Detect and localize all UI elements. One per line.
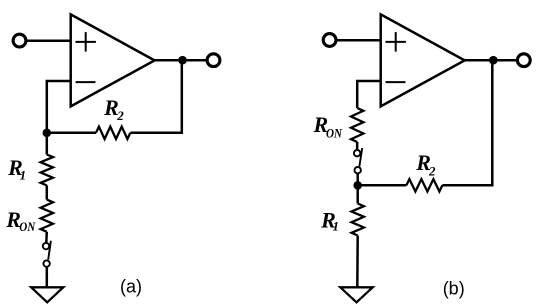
ground symbol a [31,287,63,302]
svg-text:1: 1 [333,218,340,233]
minus sign U2 [386,81,406,83]
op-amp U1 [71,14,155,106]
svg-text:(a): (a) [120,277,142,297]
svg-text:1: 1 [20,167,27,182]
svg-text:2: 2 [428,163,436,178]
switch bottom contact circle a [43,260,49,266]
plus sign U2 [386,32,406,52]
switch lever a [48,241,51,260]
op-amp U2 [381,14,465,106]
resistor R1 (a) [41,155,53,186]
output terminal circuit a [207,54,220,67]
wire switch to ground a [46,267,49,289]
wire op-amp output a [155,59,207,62]
wire RON to switch b [356,142,359,150]
wire R1 to ground b [356,236,359,289]
switch lever b [359,148,362,166]
resistor R2 (b) [406,179,442,191]
wire switch to node B [356,174,359,186]
wire op-amp output b [465,59,517,62]
resistor R1 (b) [352,204,364,236]
svg-text:2: 2 [116,108,124,123]
wire node B to R2 b [358,184,407,187]
resistor RON (b) [351,108,363,142]
wire input to op-amp noninverting b [337,39,381,42]
wire node B to R1 b [356,185,359,203]
switch bottom contact circle b [355,167,361,173]
ground symbol b [340,287,372,302]
svg-text:ON: ON [19,219,36,234]
wire inverting input to RON b [357,81,381,108]
output terminal circuit b [517,54,530,67]
output junction dot a [178,56,187,65]
plus sign U1 [76,32,96,52]
svg-text:ON: ON [326,125,343,140]
wire R2 to output b [442,60,492,185]
minus sign U1 [76,81,96,83]
wire RON to switch a [45,232,48,243]
wire R1 to RON a [46,185,49,199]
node B junction dot [353,181,362,190]
resistor RON (a) [41,200,53,232]
input terminal circuit b [323,34,336,47]
wire R2 to output a [130,60,182,133]
wire input to op-amp noninverting a [27,40,71,43]
node A junction dot [43,129,52,138]
svg-text:(b): (b) [443,279,465,299]
input terminal circuit a [13,34,26,47]
switch top contact circle a [43,243,49,249]
resistor R2 (a) [96,127,130,139]
output junction dot b [489,56,498,65]
switch top contact circle b [354,150,360,156]
wire inverting input to node A [47,81,71,133]
wire node A to R2 [47,132,96,135]
wire node A to R1 [46,133,49,155]
